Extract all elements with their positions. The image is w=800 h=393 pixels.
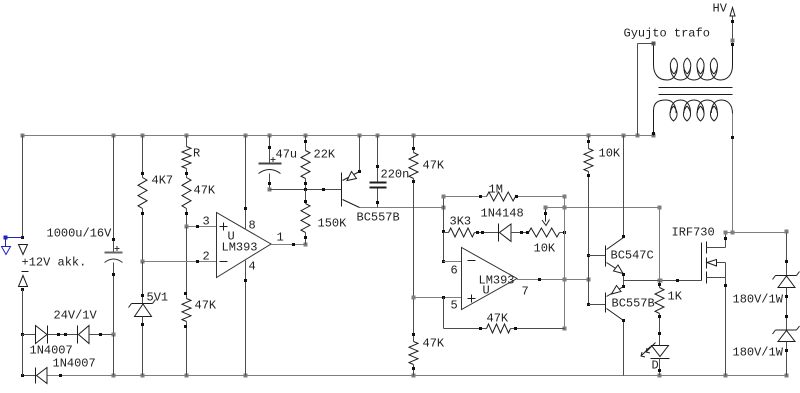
op-amp U2 LM393 comparator 2 xyxy=(462,248,518,310)
svg-text:LM393: LM393 xyxy=(222,241,258,255)
svg-text:3K3: 3K3 xyxy=(450,215,472,229)
svg-text:47K: 47K xyxy=(423,337,445,351)
diode 1N4007 (24V/1V right) xyxy=(77,326,79,344)
wire +12V battery column xyxy=(22,136,24,238)
svg-text:1N4007: 1N4007 xyxy=(30,344,73,358)
resistor 47K (pin5 divider top) xyxy=(413,136,415,153)
svg-text:BC547C: BC547C xyxy=(611,249,654,263)
wire 24V/1V row left xyxy=(23,334,36,336)
wire source to ground xyxy=(725,278,727,376)
resistor R xyxy=(182,147,191,169)
wire emitters junction xyxy=(623,274,625,287)
svg-text:1M: 1M xyxy=(489,183,503,197)
svg-text:5V1: 5V1 xyxy=(147,291,169,305)
op-amp U1 LM393 comparator 1 xyxy=(217,213,272,278)
transistor Q2 BC547C xyxy=(589,255,606,257)
svg-text:BC557B: BC557B xyxy=(357,211,400,225)
wire 24V/1V row middle xyxy=(48,334,78,336)
resistor 1M xyxy=(444,196,487,198)
wire pin 7 output row xyxy=(517,279,589,281)
wire pot wiper row xyxy=(546,207,660,209)
wire zener column top xyxy=(786,233,788,276)
wire pin3 node down xyxy=(186,227,188,299)
wire hysteresis branch xyxy=(443,298,445,329)
capacitor 220n xyxy=(377,136,379,182)
svg-text:47K: 47K xyxy=(194,184,216,198)
resistor 3K3 xyxy=(444,232,449,234)
wire R to 47K xyxy=(186,169,188,178)
zener 180V/1W (upper) xyxy=(776,275,797,277)
wire pin2 node down xyxy=(142,262,144,304)
wire pin6 node vertical xyxy=(443,197,445,262)
resistor 150K xyxy=(305,190,307,204)
svg-text:8: 8 xyxy=(249,219,256,233)
svg-text:1K: 1K xyxy=(668,290,683,304)
svg-text:1: 1 xyxy=(277,231,284,245)
wire Q2 collector to rail xyxy=(623,136,625,237)
diode 1N4148 xyxy=(498,224,500,242)
wire Q1 base row xyxy=(270,189,342,191)
svg-text:5: 5 xyxy=(451,299,458,313)
blue input marker xyxy=(4,236,8,240)
wire pin 3 row xyxy=(187,226,217,228)
wire Q3 collector to ground xyxy=(623,321,625,376)
svg-text:47u: 47u xyxy=(276,148,298,162)
port HV arrow xyxy=(730,8,735,17)
svg-text:10K: 10K xyxy=(599,147,621,161)
resistor 47K (divider upper) xyxy=(182,178,191,209)
potentiometer 10K xyxy=(529,228,560,237)
wire drain up xyxy=(725,233,727,248)
wire lower zener to ground xyxy=(786,342,788,376)
MOSFET Q4 IRF730 xyxy=(701,243,703,281)
wire Q1 collector row xyxy=(360,207,444,209)
svg-text:24V/1V: 24V/1V xyxy=(54,309,98,323)
svg-text:47K: 47K xyxy=(423,159,445,173)
resistor 47K (hysteresis) xyxy=(444,328,487,330)
wire feedback column x564 xyxy=(564,197,566,329)
wire pin 6 row xyxy=(444,261,462,263)
wire divider column xyxy=(413,179,415,342)
diode 1N4007 (ground return) xyxy=(35,368,37,384)
wire battery minus xyxy=(22,290,24,335)
wire diode to pot xyxy=(511,232,529,234)
svg-text:180V/1W: 180V/1W xyxy=(733,346,784,360)
transistor Q3 BC557B xyxy=(589,304,606,306)
svg-text:HV: HV xyxy=(713,2,728,16)
svg-text:+12V akk.: +12V akk. xyxy=(22,256,87,270)
svg-text:3: 3 xyxy=(203,215,210,229)
wire 4K7 column top xyxy=(142,136,144,178)
wire pin 2 row xyxy=(143,261,217,263)
zener 5V1 xyxy=(132,303,153,305)
port +12V akk. xyxy=(19,245,28,255)
resistor 22K xyxy=(305,136,307,151)
svg-text:22K: 22K xyxy=(314,148,336,162)
svg-text:150K: 150K xyxy=(318,217,348,231)
svg-text:6: 6 xyxy=(451,264,458,278)
wire filter cap column bottom xyxy=(113,263,115,335)
transistor Q1 BC557B xyxy=(341,173,343,207)
wire drain row xyxy=(726,232,787,234)
wire 47u top xyxy=(269,136,271,163)
svg-text:7: 7 xyxy=(522,285,529,299)
svg-text:1N4007: 1N4007 xyxy=(53,357,96,371)
resistor 10K xyxy=(588,136,590,149)
transformer core xyxy=(659,87,733,89)
svg-text:2: 2 xyxy=(203,250,210,264)
wire 24V/1V row right xyxy=(89,334,114,336)
svg-text:D: D xyxy=(652,359,659,373)
transformer secondary coil xyxy=(654,100,677,136)
wire pin 5 row xyxy=(414,297,462,299)
svg-text:IRF730: IRF730 xyxy=(672,226,715,240)
wire 5V1 to ground xyxy=(142,317,144,376)
svg-text:4: 4 xyxy=(249,260,256,274)
transformer primary coil xyxy=(654,44,678,81)
wire primary right lead / HV xyxy=(732,16,734,44)
wire pin 8 to rail xyxy=(245,136,247,230)
svg-text:BC557B: BC557B xyxy=(612,297,655,311)
wire Q1 emitter to rail xyxy=(359,136,361,172)
wire pin 1 output row xyxy=(271,244,306,246)
wire filter cap column top xyxy=(113,136,115,253)
wire 47K to pin3 row xyxy=(186,209,188,227)
wire 47u bottom xyxy=(269,174,271,190)
wire LED to ground xyxy=(659,359,661,376)
svg-text:47K: 47K xyxy=(195,299,217,313)
svg-text:Gyujto trafo: Gyujto trafo xyxy=(624,27,710,41)
resistor 47K (divider lower) xyxy=(182,299,191,322)
wire gate drive vertical x659 xyxy=(659,208,661,281)
svg-text:180V/1W: 180V/1W xyxy=(733,293,784,307)
wire secondary right lead xyxy=(732,114,734,233)
wire primary left lead xyxy=(638,43,654,45)
svg-text:R: R xyxy=(193,147,200,161)
zener 180V/1W (lower) xyxy=(776,329,797,331)
wire 4K7 to pin2 row xyxy=(142,209,144,262)
svg-text:U: U xyxy=(483,284,490,298)
LED D xyxy=(652,346,669,357)
svg-text:4K7: 4K7 xyxy=(152,174,174,188)
svg-text:220n: 220n xyxy=(381,168,410,182)
svg-text:47K: 47K xyxy=(487,312,509,326)
wire pin 4 to ground xyxy=(245,261,247,376)
resistor 1K xyxy=(659,281,661,288)
diode 1N4007 (24V/1V left) xyxy=(36,326,48,344)
resistor 4K7 xyxy=(138,178,147,209)
wire gate row xyxy=(624,280,702,282)
svg-text:1000u/16V: 1000u/16V xyxy=(47,227,113,241)
wire +12V top rail xyxy=(23,135,654,137)
resistor 47K (pin5 divider bottom) xyxy=(409,342,418,365)
capacitor 1000u/16V xyxy=(105,252,123,254)
svg-text:1N4148: 1N4148 xyxy=(481,207,524,221)
wire R column top xyxy=(186,136,188,147)
wire 10K to bases xyxy=(588,172,590,305)
wire GND bottom rail xyxy=(23,375,36,377)
wire 47K to ground xyxy=(186,322,188,376)
capacitor 47u xyxy=(259,163,282,165)
wire between zeners xyxy=(786,288,788,330)
svg-text:10K: 10K xyxy=(534,242,556,256)
